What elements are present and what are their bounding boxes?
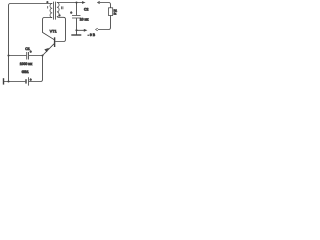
svg-text:1000 мк: 1000 мк (20, 62, 33, 66)
svg-text:VT1: VT1 (50, 30, 57, 34)
wire: C2 branch vertical (76, 3, 78, 35)
wire: left rail with top wire to transformer primary (9, 4, 53, 82)
wire: R1 bottom lead down and left to chevron (98, 16, 111, 30)
battery GB1 long plate (28, 77, 30, 85)
arrow (filled) output -9V (84, 29, 88, 32)
arrow (filled) top wire continuation (82, 1, 86, 4)
capacitor C2 plates (72, 16, 81, 19)
svg-text:+: + (70, 11, 72, 15)
winding polarity dot secondary (59, 14, 61, 16)
arrow (open chevron) before R1 top wire (97, 1, 100, 4)
arrow (open chevron) R1 lower wire (95, 28, 98, 31)
svg-text:- 9 В: - 9 В (88, 33, 96, 37)
node: junction dot bottom-left rail/battery wire (7, 80, 9, 82)
winding polarity dot primary (46, 1, 48, 3)
svg-text:10 мк: 10 мк (80, 18, 89, 22)
node: junction dot left rail / C1 wire (7, 54, 9, 56)
wire: from chevron to R1 top (97, 3, 110, 8)
transistor VT1 collector diagonal and wire to transformer primary bottom (43, 18, 55, 40)
label II (secondary winding) (62, 6, 63, 9)
wire: secondary bottom lead down to base (55, 17, 65, 42)
wire: bottom wire from ground bar through battery to right rail up to emitter node (4, 56, 43, 82)
svg-text:C2: C2 (84, 7, 88, 11)
transistor VT1 emitter with arrow (PNP) (43, 44, 55, 56)
ground bar below C2 (71, 34, 81, 36)
transformer T1 secondary winding II (57, 3, 59, 17)
wire: output arrow line (77, 29, 85, 31)
svg-text:+: + (30, 50, 32, 54)
resistor R1 body (109, 8, 113, 16)
svg-text:+: + (30, 78, 32, 82)
wire: middle wire from left rail through C1 to emitter node (9, 55, 43, 57)
node: junction dot top wire / C2 branch (75, 1, 77, 3)
node: emitter junction dot (41, 54, 43, 56)
label I (primary winding) (47, 6, 49, 8)
capacitor C1 plates (27, 52, 29, 60)
svg-text:GB1: GB1 (22, 70, 29, 74)
transformer core (54, 2, 56, 20)
node: junction dot C2 branch / output arrow (75, 29, 77, 31)
transformer T1 primary winding I (50, 4, 52, 18)
transistor VT1 base bar (54, 37, 56, 47)
ground bar bottom-left (3, 78, 5, 84)
wire: secondary top to C2 node and output arrow (57, 2, 84, 4)
battery GB1 short plate (25, 79, 27, 83)
